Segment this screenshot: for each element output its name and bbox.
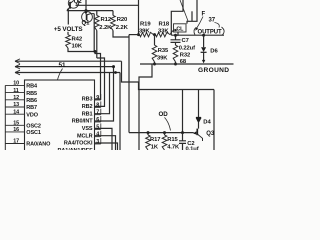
pin 8 stub [95, 106, 101, 108]
svg-text:11: 11 [13, 88, 19, 94]
svg-text:17: 17 [13, 139, 19, 145]
node R35 ground junction [153, 63, 156, 66]
svg-text:51: 51 [59, 62, 66, 69]
svg-text:R35: R35 [158, 48, 169, 54]
resistor R12 [95, 15, 100, 30]
svg-text:RA4/TOCKI: RA4/TOCKI [64, 141, 93, 147]
pin 9 stub [95, 99, 101, 101]
transistor Q2 circle [68, 0, 78, 8]
svg-text:R15: R15 [167, 137, 178, 143]
svg-text:OSC1: OSC1 [26, 130, 41, 136]
wire staircase inner from top [187, 0, 197, 24]
wire Q2 collector rail [76, 4, 139, 6]
wire pin 10 lead [5, 84, 24, 86]
svg-text:14: 14 [13, 109, 19, 115]
wire D6 bottom lead [203, 53, 205, 61]
svg-text:C7: C7 [182, 38, 189, 44]
diode D4 zener [196, 117, 201, 122]
bracket OUTPUT right [222, 27, 225, 35]
wire R32 to ground [175, 62, 177, 64]
capacitor C7 [171, 40, 181, 43]
wire +5V rail horizontal [67, 10, 113, 12]
wire R15 top lead [164, 133, 166, 135]
wire from top to Q1 emitter node [85, 0, 87, 11]
wire pin3 RA4 route [95, 143, 118, 150]
ground rail [140, 63, 234, 65]
svg-text:VDO: VDO [26, 112, 38, 118]
node R32 ground junction [174, 63, 177, 66]
svg-text:0.1uf: 0.1uf [186, 146, 199, 150]
wire long vertical to OD rail [128, 35, 130, 133]
wire R19 rail left corner [129, 34, 140, 36]
svg-text:F: F [202, 12, 206, 18]
transistor Q1 circle [82, 12, 93, 23]
svg-text:VSS: VSS [82, 126, 93, 132]
pin 7 stub [95, 114, 101, 116]
svg-text:D6: D6 [210, 48, 218, 54]
wire R12 top lead [96, 11, 98, 16]
svg-text:RB3: RB3 [82, 97, 93, 103]
wire R35 to ground [154, 62, 156, 64]
svg-text:OUTPUT: OUTPUT [198, 30, 223, 36]
transistor Q2 base bar [69, 2, 71, 9]
wire branch to C2 node [182, 90, 184, 133]
node R19 rail junction [137, 33, 140, 36]
svg-text:33K: 33K [158, 29, 169, 35]
node R42/Q1 junction [94, 50, 97, 53]
arrowhead D6 to ground [202, 60, 205, 64]
wire pin4 MCLR route [95, 136, 116, 150]
svg-text:R19: R19 [140, 21, 151, 27]
wire A1 staircase to bottom right [122, 61, 215, 89]
wire branch right vertical [213, 90, 215, 151]
svg-text:RA0/ANO: RA0/ANO [26, 142, 51, 148]
leader line 57 diagonal [180, 0, 188, 21]
svg-text:2.2K: 2.2K [116, 25, 129, 31]
wire off-page arrow A2 [15, 66, 114, 68]
diode D6 zener [201, 47, 206, 52]
node CL box [174, 24, 187, 32]
wire R17 top lead [147, 133, 149, 135]
wire branch to D4 [198, 90, 200, 118]
resistor R19 [140, 32, 154, 36]
resistor R32 [173, 45, 178, 62]
wire CL to C7 [176, 32, 179, 40]
wire pin 11 lead [5, 92, 24, 94]
bracket OUTPUT left [194, 28, 196, 35]
svg-text:RB2: RB2 [82, 104, 93, 110]
wire pin6 RB0 route [95, 67, 114, 121]
node R17 junction [147, 131, 150, 134]
resistor R42 [66, 35, 71, 48]
wire +5V stub down [67, 11, 69, 25]
node C2 junction [181, 131, 184, 134]
svg-text:1K: 1K [151, 144, 159, 150]
wire pin7 RB1 route [95, 73, 110, 114]
wire Q1 collector down [93, 14, 95, 52]
wire pin 17 lead [5, 143, 24, 145]
svg-text:GROUND: GROUND [198, 67, 229, 74]
svg-text:RB5: RB5 [26, 91, 37, 97]
wire staircase outer from top [171, 0, 183, 35]
svg-text:2.2K: 2.2K [99, 25, 112, 31]
node OUTPUT/C7 junction [174, 34, 177, 37]
wire R20 top lead [112, 11, 114, 16]
pin 4 stub [95, 136, 101, 138]
svg-text:10K: 10K [72, 44, 83, 50]
wire pin 12 lead [5, 99, 24, 101]
transistor Q3 emitter arrow [194, 132, 197, 134]
svg-text:OD: OD [159, 111, 169, 118]
svg-text:R17: R17 [150, 137, 160, 143]
wire C2 bottom lead [182, 143, 184, 150]
svg-text:10: 10 [13, 81, 19, 87]
transistor Q2 collector [70, 0, 74, 3]
wire A3 continuation down [119, 73, 121, 151]
svg-text:39K: 39K [157, 56, 168, 62]
wire C7 to R32 [175, 42, 177, 45]
svg-text:Q2: Q2 [74, 0, 83, 5]
wire staircase connector [191, 11, 193, 21]
svg-text:R18: R18 [159, 21, 170, 27]
wire C2 top lead [182, 133, 184, 141]
svg-text:15: 15 [13, 121, 19, 127]
wire R12 bottom lead [96, 30, 98, 58]
IC left bus [4, 85, 6, 150]
pin 7 box tick [100, 109, 102, 115]
wire R20 bottom jog [113, 30, 129, 37]
svg-text:Q1: Q1 [82, 21, 91, 27]
node A3 junction [114, 71, 117, 74]
wire R35 top lead [154, 35, 156, 46]
wire pin 14 lead [5, 113, 24, 115]
node R15 junction [163, 131, 166, 134]
leader F arrow [197, 17, 204, 29]
svg-text:0.22uf: 0.22uf [179, 46, 195, 52]
pin 6 stub [95, 121, 101, 123]
svg-text:R42: R42 [72, 36, 83, 42]
pin 3 stub [95, 143, 101, 145]
wire ground return path [139, 64, 152, 150]
IC 51 box [25, 80, 95, 152]
svg-text:13: 13 [13, 102, 19, 108]
svg-text:MCLR: MCLR [77, 133, 93, 139]
pin 6 box tick [100, 116, 102, 122]
wire R42 top lead [67, 32, 69, 35]
pin 8 box tick [100, 101, 102, 107]
node A2 junction [112, 65, 115, 68]
wire pin 13 lead [5, 106, 24, 108]
wire off-page arrow A3 [15, 72, 120, 74]
svg-text:RB6: RB6 [26, 98, 37, 104]
wire R18 to CL node curved arrow [170, 30, 176, 35]
resistor R18 [156, 32, 171, 36]
wire OD rail [129, 132, 194, 134]
svg-text:RB0/INT: RB0/INT [72, 119, 93, 125]
resistor R15 [162, 135, 167, 150]
leader 37 curl [215, 23, 220, 28]
svg-text:D4: D4 [203, 119, 211, 125]
transistor Q1 base bar [86, 14, 88, 20]
resistor R17 [146, 135, 151, 150]
resistor R20 [111, 15, 116, 30]
arrowhead A3 [15, 70, 20, 75]
wire pin9 RB3 route [95, 52, 101, 100]
svg-text:R32: R32 [180, 52, 190, 58]
pin 9 box tick [100, 94, 102, 100]
leader OD [165, 117, 171, 130]
transistor Q3 base bar [196, 129, 198, 136]
wire pin 16 lead [5, 131, 24, 133]
capacitor C2 [179, 141, 186, 144]
svg-text:16: 16 [13, 127, 19, 133]
svg-text:R20: R20 [117, 17, 128, 23]
node D6 top junction [202, 34, 205, 37]
wire off-page arrow A1 [15, 60, 122, 62]
svg-text:RB7: RB7 [26, 105, 37, 111]
leader 51 [58, 69, 63, 80]
svg-text:Q3: Q3 [206, 131, 215, 137]
resistor R35 [152, 45, 157, 62]
wire R42 bottom to node [68, 48, 95, 52]
transistor Q2 emitter arrow [67, 7, 70, 10]
wire down to R19 rail [138, 0, 140, 35]
pin 3 box tick [100, 138, 102, 144]
svg-text:RB4: RB4 [26, 84, 38, 90]
svg-text:OSC2: OSC2 [26, 124, 41, 130]
wire pin5 VSS route [95, 128, 113, 150]
wire D6 top lead [203, 35, 205, 47]
pin 4 box tick [100, 131, 102, 137]
node R19/R18 junction [153, 33, 156, 36]
transistor Q1 collector [87, 14, 95, 15]
svg-text:4.7K: 4.7K [167, 144, 180, 150]
pin 5 stub [95, 128, 101, 130]
svg-text:R12: R12 [101, 17, 112, 23]
svg-text:RA1/AN1/REF: RA1/AN1/REF [58, 148, 94, 150]
svg-text:RB1: RB1 [82, 111, 93, 117]
arrowhead A2 [15, 64, 20, 69]
transistor Q1 emitter arrow [85, 11, 87, 14]
svg-text:12: 12 [13, 95, 19, 101]
arrowhead A1 [15, 59, 20, 64]
wire pin 15 lead [5, 124, 24, 126]
node Q1 emitter junction [85, 9, 88, 12]
wire pin8 RB2 route [95, 58, 105, 106]
pin 5 box tick [100, 123, 102, 129]
wire OUTPUT rail [171, 34, 224, 36]
svg-text:CL: CL [176, 26, 184, 32]
svg-text:39K: 39K [139, 29, 150, 35]
svg-text:+5 VOLTS: +5 VOLTS [54, 26, 83, 33]
wire D4 bottom lead [198, 123, 200, 129]
transistor Q3 collector [197, 134, 202, 141]
